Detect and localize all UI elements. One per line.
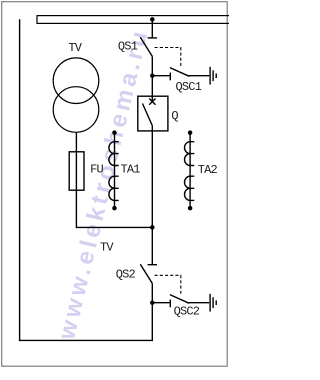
wire node B to QS2 bbox=[151, 227, 153, 264]
node TA2 top terminal bbox=[188, 130, 193, 135]
node A junction bbox=[150, 73, 155, 78]
circuit breaker Q bbox=[138, 96, 168, 131]
svg-text:QS1: QS1 bbox=[118, 39, 138, 53]
wire QS1 to node A bbox=[151, 56, 153, 96]
node B junction bbox=[150, 225, 155, 230]
current transformer TA1 bbox=[109, 133, 119, 209]
node TA2 bottom terminal bbox=[188, 206, 193, 211]
ground symbol QSC2 bbox=[210, 294, 216, 312]
interlock dashed QS1-QSC1 bbox=[155, 48, 181, 67]
svg-text:QSC2: QSC2 bbox=[174, 305, 200, 319]
grounding switch QSC1 bbox=[152, 68, 209, 81]
svg-text:www.elektroshema.ru: www.elektroshema.ru bbox=[53, 25, 154, 343]
grounding switch QSC2 bbox=[152, 295, 209, 308]
fuse FU bbox=[69, 152, 84, 190]
node TA1 top terminal bbox=[112, 130, 117, 135]
node TA1 bottom terminal bbox=[112, 206, 117, 211]
svg-text:QS2: QS2 bbox=[116, 268, 136, 282]
border frame bbox=[2, 2, 228, 367]
svg-text:TA2: TA2 bbox=[198, 163, 218, 177]
wire QS2 to bottom bbox=[20, 19, 153, 340]
disconnector QS1 bbox=[140, 37, 157, 56]
disconnector QS2 bbox=[140, 264, 157, 283]
ground symbol QSC1 bbox=[210, 67, 216, 85]
busbar bbox=[37, 16, 231, 24]
wire TV to FU bbox=[76, 132, 152, 227]
wire Q to node B bbox=[151, 131, 153, 228]
svg-text:QSC1: QSC1 bbox=[176, 80, 202, 94]
voltage transformer TV bbox=[53, 58, 99, 132]
svg-text:TV: TV bbox=[68, 41, 82, 55]
svg-text:Q: Q bbox=[171, 109, 178, 123]
current transformer TA2 bbox=[185, 133, 195, 209]
interlock dashed QS2-QSC2 bbox=[155, 275, 181, 294]
svg-text:TV: TV bbox=[100, 240, 114, 254]
wire busbar to QS1 bbox=[151, 19, 153, 38]
node busbar tap bbox=[150, 17, 155, 22]
svg-text:FU: FU bbox=[90, 162, 103, 176]
svg-text:TA1: TA1 bbox=[121, 162, 141, 176]
node C junction bbox=[150, 300, 155, 305]
